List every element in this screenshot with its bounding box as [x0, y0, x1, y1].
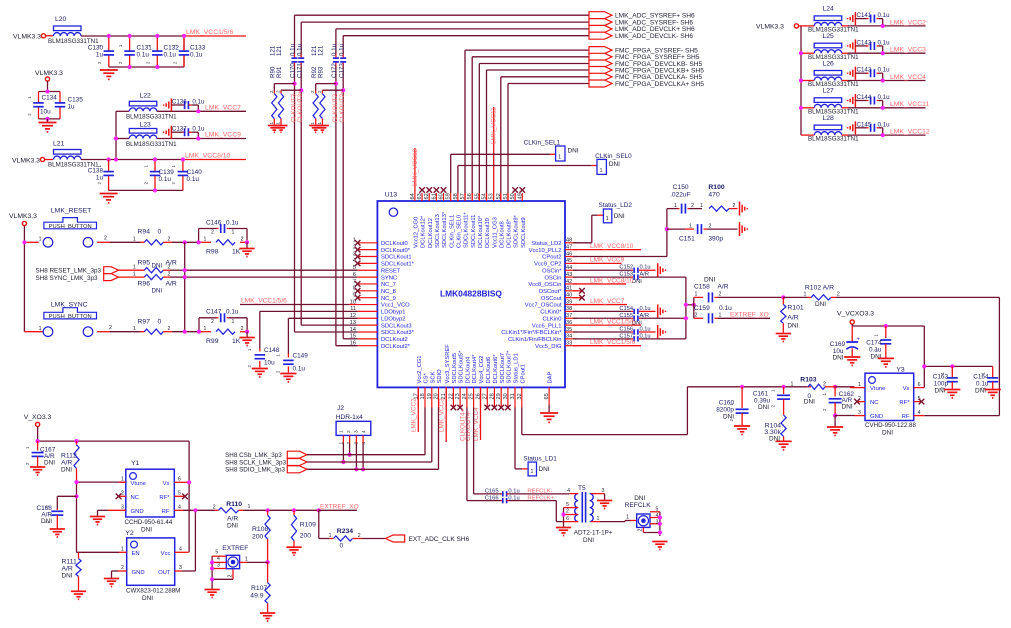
svg-text:LMK04828BISQ: LMK04828BISQ: [440, 289, 502, 299]
pin 63 stub: [421, 193, 423, 201]
svg-text:0.1u: 0.1u: [508, 495, 519, 501]
inductor L25: [808, 33, 859, 61]
wire RF row: [183, 509, 215, 511]
resistor R95: [119, 260, 185, 273]
resistor R93: [320, 94, 325, 119]
wire row out: [848, 134, 926, 136]
svg-text:44: 44: [566, 265, 572, 271]
EXTREF bracket wires: [212, 555, 226, 557]
svg-text:C130: C130: [88, 45, 104, 52]
capacitor C140: [171, 160, 202, 191]
wire vertical C173 net: [342, 36, 344, 54]
svg-text:SDCLKout11: SDCLKout11: [471, 215, 477, 248]
junction: [193, 508, 197, 512]
pin 29 stub: [500, 387, 502, 407]
svg-text:62: 62: [424, 193, 430, 199]
junction: [341, 88, 345, 92]
capacitor C142 with ground: [848, 39, 891, 53]
pin 53 stub: [493, 193, 495, 201]
capacitor C131: [118, 36, 152, 67]
svg-text:LMK_VCC8/10: LMK_VCC8/10: [590, 277, 634, 284]
wire to ground: [246, 332, 248, 337]
svg-text:121: 121: [318, 45, 325, 56]
svg-text:1: 1: [133, 326, 136, 332]
svg-text:C174: C174: [866, 340, 882, 347]
junction: [740, 385, 744, 389]
flag LMK_ADC_DEVCLK-: [589, 32, 612, 39]
svg-text:35: 35: [566, 327, 572, 333]
svg-text:49: 49: [517, 193, 523, 199]
svg-text:RF*: RF*: [159, 495, 170, 501]
svg-text:C172: C172: [331, 63, 338, 78]
junction: [658, 530, 662, 534]
wire net LMK_VCC1/5/6 pin10: [240, 304, 349, 306]
wire T5 to REFCLK: [600, 521, 625, 523]
svg-text:DNI: DNI: [44, 460, 55, 467]
svg-text:C171: C171: [296, 63, 303, 78]
svg-text:2: 2: [121, 565, 124, 571]
pin 48 stub: [565, 242, 577, 244]
ground: [776, 440, 792, 442]
wire net LMK_VCC1/5/6 pin33: [573, 345, 641, 347]
svg-text:SDCLKout5*: SDCLKout5*: [459, 350, 465, 384]
svg-text:CLKOUT4-: CLKOUT4-: [465, 410, 472, 441]
junction: [692, 303, 696, 307]
svg-text:BLM18SG331TN1: BLM18SG331TN1: [126, 114, 177, 121]
wire R92 to ground: [315, 119, 317, 125]
junction: [881, 133, 885, 137]
junction: [45, 117, 49, 121]
J2 pin1 wire: [342, 435, 344, 443]
svg-text:R109: R109: [300, 522, 316, 529]
svg-text:2: 2: [310, 90, 315, 93]
svg-text:Y1: Y1: [131, 460, 140, 467]
svg-text:Vs: Vs: [903, 386, 910, 392]
junction: [658, 522, 662, 526]
pin 39 stub: [565, 304, 577, 306]
junction: [245, 330, 249, 334]
wire L23 out: [157, 138, 199, 140]
no-connect X: [492, 405, 498, 411]
svg-text:DNI: DNI: [934, 388, 945, 395]
svg-text:0.1u: 0.1u: [226, 220, 239, 227]
no-connect X: [512, 187, 518, 193]
svg-text:DNI: DNI: [609, 161, 620, 168]
svg-text:DCLKout2*: DCLKout2*: [381, 344, 411, 350]
wire bead stub left: [801, 134, 814, 136]
svg-text:CLKOUT3+: CLKOUT3+: [297, 90, 304, 123]
svg-text:CS*: CS*: [424, 372, 430, 383]
svg-text:0.1u: 0.1u: [878, 94, 891, 101]
svg-text:0.1u: 0.1u: [226, 309, 239, 316]
svg-text:1: 1: [689, 224, 692, 230]
flag FMC_FPGA_SYSREF-: [589, 47, 612, 54]
wire net LMK_VCC4: [480, 387, 482, 440]
ground: [309, 125, 322, 127]
pin 12 stub: [358, 317, 378, 319]
flag FMC_FPGA_DEVCLKB+: [589, 67, 612, 74]
svg-text:1: 1: [558, 155, 561, 161]
resistor R99: [199, 326, 247, 345]
svg-text:SDCLKout9*: SDCLKout9*: [514, 214, 520, 248]
svg-text:R110: R110: [226, 501, 242, 508]
svg-text:REFCLK-: REFCLK-: [527, 488, 552, 494]
junction: [196, 109, 200, 113]
flag SH8 SCLK_LMK_3p3: [287, 459, 307, 466]
svg-text:58: 58: [453, 193, 459, 199]
svg-text:SDIO: SDIO: [437, 369, 443, 384]
svg-text:57: 57: [460, 193, 466, 199]
svg-text:OUT: OUT: [158, 570, 171, 576]
svg-text:1: 1: [39, 237, 42, 243]
junction: [266, 508, 270, 512]
connector REFCLK: [625, 495, 652, 527]
svg-text:C148: C148: [264, 347, 280, 354]
resistor R97: [133, 319, 171, 335]
wire cap bottom bus: [109, 66, 184, 68]
svg-text:2: 2: [719, 292, 722, 298]
ground: [100, 69, 118, 71]
svg-text:1: 1: [695, 292, 698, 298]
svg-text:LMK_VCC11: LMK_VCC11: [491, 107, 498, 144]
resistor R103: [791, 377, 836, 406]
ground: [944, 389, 960, 391]
svg-text:CLKin_SEL0: CLKin_SEL0: [456, 215, 462, 248]
wire row out: [848, 52, 926, 54]
wire V_XO3.3 top rail: [37, 427, 39, 442]
wire link: [686, 304, 694, 306]
svg-text:Vcc12_CG0: Vcc12_CG0: [414, 217, 420, 248]
svg-text:0.1u: 0.1u: [192, 126, 205, 133]
junction: [799, 51, 803, 55]
pin 44 stub: [565, 269, 577, 271]
svg-text:1: 1: [204, 237, 207, 243]
ground: [985, 389, 1001, 391]
svg-text:EXT_ADC_CLK SH6: EXT_ADC_CLK SH6: [409, 536, 470, 543]
wire riser to L22/L23: [115, 111, 117, 159]
wire button to R94: [97, 241, 110, 243]
svg-text:OSCout*: OSCout*: [539, 289, 563, 295]
junction: [128, 65, 132, 69]
svg-text:CLKin0: CLKin0: [542, 316, 561, 322]
wire R93 branch: [322, 89, 343, 91]
pin 1 stub: [358, 242, 378, 244]
wire C158/C159 left riser: [693, 297, 695, 318]
svg-text:0.1u: 0.1u: [331, 43, 338, 56]
pin 2 stub: [358, 249, 378, 251]
svg-text:LDObyp1: LDObyp1: [381, 310, 406, 316]
svg-text:Vcc8_OSCin: Vcc8_OSCin: [528, 282, 561, 288]
wire net LMK_VCC8/10 pin47: [573, 249, 641, 251]
svg-text:DNI: DNI: [583, 537, 594, 544]
wire bead out: [842, 25, 848, 27]
capacitor C174: [866, 326, 891, 361]
svg-text:C137: C137: [172, 126, 187, 133]
svg-text:4: 4: [178, 505, 181, 511]
junction: [950, 364, 954, 368]
svg-text:Y3: Y3: [896, 367, 905, 374]
svg-text:1: 1: [248, 504, 251, 510]
svg-text:DCLKout12: DCLKout12: [428, 218, 434, 248]
wire bead stub left: [801, 25, 814, 27]
wire bead out: [842, 52, 848, 54]
pin 49 stub: [521, 193, 523, 201]
junction: [181, 157, 185, 161]
resistor R110: [213, 501, 319, 530]
svg-text:DNI: DNI: [41, 518, 52, 525]
svg-text:DNI: DNI: [842, 404, 853, 411]
svg-text:0.1u: 0.1u: [338, 43, 345, 56]
wire row out: [848, 107, 926, 109]
wire net LMK_ADC_DEVCLK-: [343, 35, 589, 37]
no-connect X: [441, 187, 447, 193]
svg-text:GND: GND: [131, 509, 144, 515]
svg-text:SDCLKout5: SDCLKout5: [452, 353, 458, 384]
wire vertical C172 net: [335, 29, 337, 54]
resistor R104: [764, 415, 786, 443]
no-connect X: [451, 405, 457, 411]
svg-text:L24: L24: [823, 6, 835, 13]
svg-text:Y2: Y2: [125, 530, 134, 537]
junction: [266, 560, 270, 564]
pin 57 stub: [464, 193, 466, 201]
wire net LMK_VCC9 pin45: [573, 262, 622, 264]
svg-text:1: 1: [531, 469, 534, 475]
pin 61 stub: [435, 193, 437, 201]
svg-text:2: 2: [695, 313, 698, 319]
svg-text:48: 48: [566, 238, 572, 244]
wire pin15: [343, 338, 357, 340]
pin 14 stub: [358, 331, 378, 333]
inductor L23: [126, 122, 177, 148]
capacitor C130: [88, 36, 114, 67]
wire C162 to ground: [834, 416, 836, 427]
resistor R101: [781, 297, 804, 332]
svg-text:5: 5: [566, 502, 569, 508]
wire R93 to ground: [321, 119, 323, 125]
junction: [183, 240, 187, 244]
capacitor C154: [573, 306, 651, 314]
pin 40 stub: [565, 297, 577, 299]
pin 4 stub: [358, 262, 378, 264]
junction: [155, 34, 159, 38]
svg-text:22: 22: [448, 393, 454, 399]
no-connect X: [498, 405, 504, 411]
svg-text:LMK_VCC3: LMK_VCC3: [439, 398, 446, 432]
pin 41 stub: [565, 290, 577, 292]
wire CLKin_SEL1: [450, 154, 452, 193]
svg-text:10u: 10u: [40, 109, 51, 116]
svg-text:28: 28: [489, 393, 495, 399]
svg-text:LMK_VCC12: LMK_VCC12: [412, 148, 419, 186]
ground: [204, 589, 219, 591]
resistor R108: [252, 510, 270, 562]
wire net LMK_VCC1/5/6 top: [81, 35, 184, 37]
Y2 pin3 stub: [175, 570, 182, 572]
ground: [260, 612, 275, 614]
svg-text:DCLKout10*: DCLKout10*: [478, 215, 484, 248]
U13 pin1 marker circle: [389, 208, 397, 216]
svg-text:1: 1: [858, 382, 861, 388]
connector Status_LD1: [523, 455, 557, 476]
svg-text:1: 1: [133, 271, 136, 277]
capacitor C147: [199, 309, 247, 325]
svg-text:PUSH_BUTTON: PUSH_BUTTON: [49, 224, 92, 230]
svg-text:OSCout: OSCout: [541, 296, 562, 302]
svg-text:2: 2: [317, 90, 322, 93]
no-connect X: [520, 187, 526, 193]
ground (rotated): [739, 222, 741, 236]
svg-text:RESET: RESET: [381, 268, 401, 274]
svg-text:R98: R98: [206, 249, 219, 256]
svg-text:DNI: DNI: [804, 399, 815, 406]
svg-text:2: 2: [213, 505, 216, 511]
T5 pin1 stub: [591, 521, 600, 523]
svg-text:NC_8: NC_8: [381, 289, 396, 295]
svg-text:0.1u: 0.1u: [293, 366, 306, 373]
svg-text:Vs: Vs: [163, 481, 170, 487]
svg-text:C150: C150: [673, 184, 689, 191]
junction: [114, 136, 118, 140]
connector Status_LD2: [599, 202, 633, 223]
resistor R109: [291, 510, 316, 546]
no-connect X: [355, 261, 361, 267]
wire net LMK_VCC11: [493, 107, 495, 193]
resistor R90: [272, 94, 277, 119]
svg-text:L21: L21: [53, 141, 65, 148]
wire net FMC_FPGA_DEVCLKA+: [508, 83, 589, 85]
junction: [833, 413, 837, 417]
svg-text:0.1u: 0.1u: [878, 12, 891, 19]
svg-text:DNI: DNI: [723, 414, 734, 421]
wire bead out: [842, 134, 848, 136]
Y2 pin4 stub: [175, 551, 189, 553]
J2 pin2 wire: [349, 435, 351, 443]
svg-text:T5: T5: [578, 485, 586, 492]
inductor L27: [808, 88, 859, 116]
svg-text:DCLKout12*: DCLKout12*: [421, 215, 427, 248]
svg-text:LMK_ADC_DEVCLK- SH6: LMK_ADC_DEVCLK- SH6: [615, 33, 693, 40]
svg-text:EXTREF: EXTREF: [222, 545, 248, 552]
wire net LMK_ADC_SYSREF+: [295, 14, 590, 16]
svg-text:OSCin: OSCin: [544, 275, 561, 281]
wire net FMC_FPGA_DEVCLKB+: [487, 69, 590, 71]
pin 24 stub: [466, 387, 468, 407]
junction: [561, 512, 565, 516]
Y1 pin2 stub: [118, 495, 126, 497]
svg-text:GND: GND: [132, 570, 145, 576]
wire L22 out: [157, 110, 199, 112]
svg-text:LDObyp2: LDObyp2: [381, 316, 406, 322]
svg-text:2: 2: [109, 325, 112, 331]
ground (rotated): [657, 325, 659, 339]
flag LMK_ADC_SYSREF-: [589, 19, 612, 26]
wire bead stub left: [801, 80, 814, 82]
svg-text:V_VCXO3.3: V_VCXO3.3: [837, 311, 874, 318]
junction: [182, 34, 186, 38]
wire Vtune rail: [77, 481, 128, 483]
svg-text:1: 1: [329, 533, 332, 539]
J2 pin4 wire: [362, 435, 364, 443]
svg-text:L26: L26: [823, 60, 835, 67]
svg-text:CLKin_SEL0: CLKin_SEL0: [595, 153, 632, 160]
capacitor C132: [146, 36, 180, 67]
svg-text:1u: 1u: [96, 52, 104, 59]
svg-text:SH8 RESET_LMK_3p3: SH8 RESET_LMK_3p3: [36, 268, 102, 275]
pin 35 stub: [565, 331, 577, 333]
pin 30 stub: [507, 387, 509, 407]
svg-text:41: 41: [566, 286, 572, 292]
J2 pin3 wire: [355, 435, 357, 443]
svg-text:C159: C159: [694, 305, 710, 312]
svg-text:C144: C144: [857, 94, 872, 101]
svg-text:VLMK3.3: VLMK3.3: [35, 70, 63, 77]
oscillator Y1: [125, 460, 175, 534]
wire RESET/SYNC vertical: [184, 242, 186, 331]
capacitor C134: [27, 92, 57, 119]
svg-text:45: 45: [566, 258, 572, 264]
svg-text:.022uF: .022uF: [670, 192, 691, 199]
capacitor C148: [247, 347, 280, 368]
svg-text:24: 24: [462, 393, 468, 399]
flag EXT_ADC_CLK: [386, 535, 405, 542]
capacitor C151: [667, 224, 738, 243]
Y1 pin3 stub: [108, 509, 126, 511]
ground (rotated): [657, 263, 659, 277]
wire VLMK3.3 to L20: [46, 35, 53, 37]
ground: [286, 546, 301, 548]
junction: [128, 34, 132, 38]
wire C153 to vertical: [641, 276, 686, 278]
svg-text:VLMK3.3: VLMK3.3: [9, 213, 37, 220]
svg-text:J2: J2: [337, 405, 344, 412]
Y1 pin5 stub: [174, 495, 186, 497]
svg-text:C161: C161: [753, 391, 769, 398]
capacitor C171: [298, 58, 304, 62]
pin 22 stub: [452, 387, 454, 407]
connector EXTREF: [222, 545, 248, 569]
svg-text:C139: C139: [159, 169, 175, 176]
svg-text:L25: L25: [823, 33, 835, 40]
svg-text:1: 1: [269, 122, 274, 125]
capacitor C165: [479, 488, 569, 496]
wire R110 row: [215, 509, 219, 511]
svg-text:Vcc: Vcc: [161, 551, 171, 557]
svg-text:52: 52: [496, 193, 502, 199]
svg-text:Vcc11_CG3: Vcc11_CG3: [492, 217, 498, 248]
svg-text:2: 2: [837, 292, 840, 298]
svg-text:1: 1: [276, 122, 281, 125]
resistor R96: [119, 271, 185, 294]
svg-text:2: 2: [241, 237, 244, 243]
Y3 pin3 stub: [855, 415, 866, 417]
svg-text:LMK_VCC11: LMK_VCC11: [890, 101, 929, 108]
junction: [799, 106, 803, 110]
svg-text:R102 A/R: R102 A/R: [805, 284, 834, 291]
svg-text:2: 2: [104, 236, 107, 242]
svg-text:121: 121: [276, 45, 283, 56]
pin 17 stub: [417, 387, 419, 407]
capacitor C169: [830, 326, 861, 362]
pin 42 stub: [565, 283, 577, 285]
pin40 X: [573, 297, 582, 299]
power flag V_VCXO3.3: [837, 311, 874, 325]
capacitor C155: [573, 313, 649, 327]
svg-text:0.1u: 0.1u: [192, 99, 205, 106]
svg-text:1: 1: [791, 381, 794, 387]
svg-text:VLMK3.3: VLMK3.3: [13, 34, 41, 41]
pin 23 stub: [459, 387, 461, 407]
